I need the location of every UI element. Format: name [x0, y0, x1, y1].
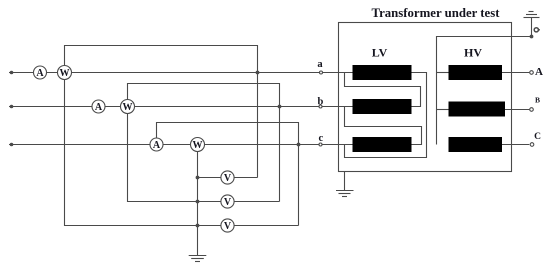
svg-text:W: W: [193, 140, 203, 151]
wire V3 branch: from phase c down to voltmeter V3 row: [298, 145, 300, 226]
node terminal b: [319, 105, 322, 108]
wire phase a line: [9, 72, 353, 74]
node supply terminal phase b: [10, 105, 14, 109]
svg-text:V: V: [224, 173, 232, 184]
svg-text:b: b: [317, 96, 323, 107]
node terminal c: [319, 143, 322, 146]
wire neutral terminal tick: [539, 29, 540, 31]
svg-text:Transformer under test: Transformer under test: [372, 6, 501, 20]
node junction phase b / V2 branch: [278, 105, 282, 109]
svg-text:HV: HV: [464, 45, 482, 59]
wire LV delta link b-c: [345, 107, 422, 145]
svg-text:A: A: [95, 102, 103, 113]
ground (HV neutral, top right): [524, 12, 540, 18]
svg-text:A: A: [36, 68, 44, 79]
node terminal A: [530, 71, 534, 75]
wire LV delta link a-b: [345, 73, 421, 107]
wire HV output C: [502, 144, 529, 146]
wire V2 branch: from phase b down to voltmeter V2 row: [279, 107, 281, 202]
wattmeter W3: [191, 138, 205, 152]
ground (bottom of neutral bus): [189, 256, 207, 262]
node junction bus / V3 row: [196, 224, 200, 228]
svg-text:V: V: [224, 221, 232, 232]
ground (transformer tank): [336, 191, 354, 197]
svg-text:LV: LV: [372, 45, 388, 59]
node terminal o (neutral): [534, 28, 538, 32]
ammeter A2: [92, 100, 105, 113]
wire W3 voltage tap: up from A3, right, down to phase c: [157, 123, 299, 145]
wire neutral bus: down from W3 to ground: [197, 145, 199, 256]
node terminal a: [320, 71, 323, 74]
svg-text:A: A: [153, 140, 161, 151]
node junction bus / V1 row: [196, 176, 200, 180]
wattmeter W2: [121, 100, 135, 114]
svg-text:a: a: [317, 59, 323, 70]
winding LV phase c: [353, 137, 412, 152]
wire HV star bus: [437, 37, 532, 145]
node supply terminal phase a: [10, 71, 14, 75]
winding LV phase b: [353, 99, 412, 114]
wire W2 voltage tap: up from W2, right, down to phase b: [128, 84, 280, 107]
wire V1 row: neutral bus to V1 branch: [198, 177, 258, 179]
wire W2 common lead: down from W2 to V2 row: [128, 107, 280, 202]
ammeter A1: [34, 66, 47, 79]
wire HV star stub B: [437, 109, 449, 111]
voltmeter V2: [221, 195, 234, 208]
wire LV delta link c-a: [345, 73, 427, 158]
wire W1 voltage tap: up from W1, right, down to phase a: [65, 46, 258, 73]
winding HV phase C: [449, 137, 503, 152]
node supply terminal phase c: [10, 143, 14, 147]
ammeter A3: [150, 138, 163, 151]
node junction bus / V2 row: [196, 200, 200, 204]
svg-text:A: A: [535, 66, 543, 78]
svg-text:B: B: [535, 96, 540, 105]
voltmeter V1: [221, 171, 234, 184]
transformer box: [339, 23, 512, 172]
node junction neutral: [530, 35, 534, 39]
svg-text:c: c: [318, 133, 323, 144]
wire V1 branch: from phase a down to voltmeter V1 row: [257, 73, 259, 178]
node terminal B: [530, 108, 534, 112]
wire tank ground stem: [344, 172, 346, 191]
wire HV output A: [502, 72, 529, 74]
svg-text:W: W: [123, 102, 133, 113]
wire HV neutral stem: [531, 18, 533, 37]
svg-text:W: W: [60, 68, 70, 79]
wire W1 common lead: down from W1 to bottom row: [65, 73, 299, 226]
wire phase b line: [9, 106, 353, 108]
svg-text:V: V: [224, 197, 232, 208]
winding HV phase B: [449, 102, 506, 117]
voltmeter V3: [221, 219, 234, 232]
winding LV phase a: [353, 65, 412, 80]
wattmeter W1: [58, 66, 72, 80]
node terminal C: [530, 143, 534, 147]
svg-text:C: C: [534, 132, 541, 142]
wire HV star stub A: [437, 72, 449, 74]
wire phase c line: [9, 144, 353, 146]
winding HV phase A: [449, 65, 503, 80]
wire HV output B: [505, 109, 529, 111]
node junction phase a / V1 branch: [256, 71, 260, 75]
node junction phase c / V3 branch: [297, 143, 301, 147]
